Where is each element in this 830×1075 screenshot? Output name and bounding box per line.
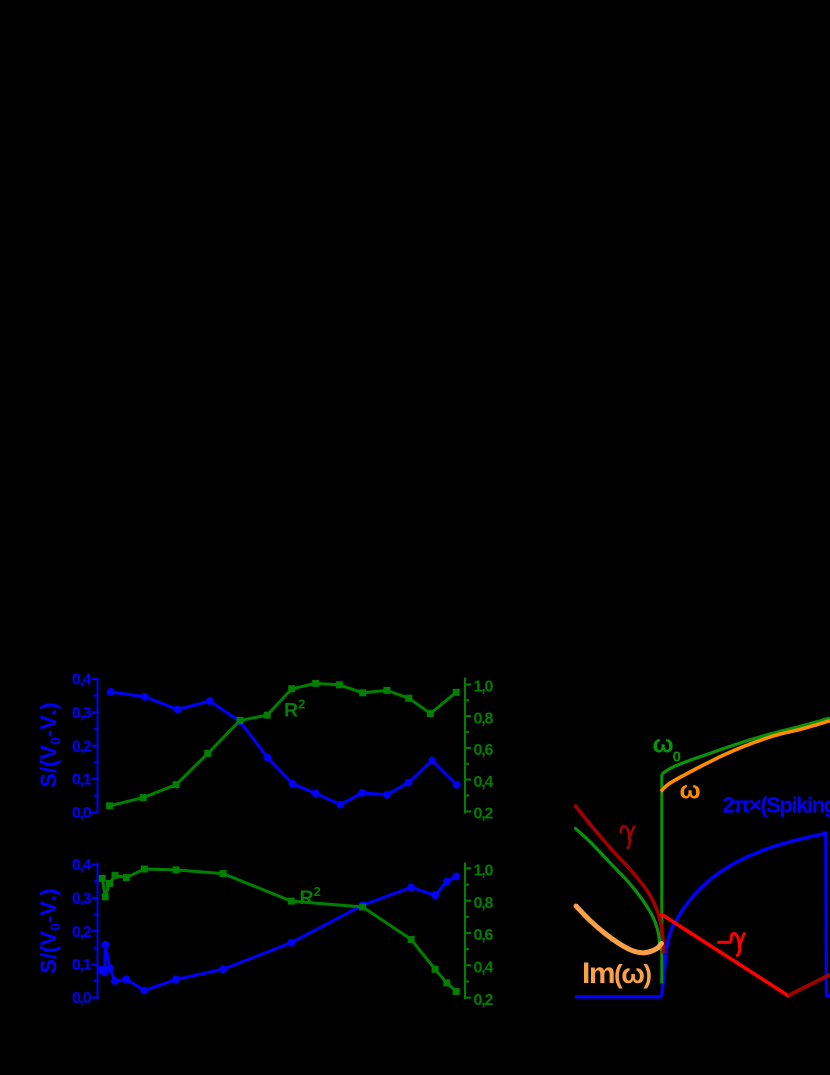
right plot orange Im(omega) arc [576,906,662,953]
svg-text:0,4: 0,4 [72,857,92,874]
svg-text:0,8: 0,8 [474,710,494,727]
label minus gamma red [717,933,744,955]
right plot red minus-gamma line [662,915,788,996]
svg-text:0,2: 0,2 [474,992,494,1009]
svg-text:0,2: 0,2 [72,924,92,941]
svg-text:1,0: 1,0 [474,863,494,880]
right plot orange omega curve [661,721,830,792]
label omega0 green [653,731,681,766]
label 2pi x (Spiking rate) blue [723,792,830,817]
label omega orange [680,776,701,804]
svg-text:0,6: 0,6 [474,742,494,759]
right plot dark red gamma line (right branch) [788,975,830,996]
right plot green omega0 curve [662,718,830,774]
svg-text:2π×(Spiking rate): 2π×(Spiking rate) [723,792,830,817]
bottom chart R^2 label [300,884,321,909]
svg-text:0,0: 0,0 [72,805,92,822]
svg-text:0,4: 0,4 [474,960,494,977]
svg-text:0,2: 0,2 [474,806,494,823]
svg-text:S/(V0-V*): S/(V0-V*) [36,888,64,973]
bottom chart green right axis tick labels [474,863,494,1009]
top chart blue data series S/(V0-V*) [107,688,461,808]
svg-text:1,0: 1,0 [474,679,494,696]
svg-text:0,0: 0,0 [72,990,92,1007]
svg-text:R2: R2 [300,884,321,909]
top chart green right y-axis [465,678,471,814]
label Im(omega) orange [582,957,651,990]
bottom chart blue data series S/(V0-V*) [97,873,460,995]
right plot blue spiking rate curve [575,832,830,997]
svg-text:ω0: ω0 [653,731,681,766]
top chart green right axis tick labels [474,679,494,823]
svg-text:0,6: 0,6 [474,927,494,944]
svg-text:ω: ω [680,776,701,804]
svg-text:S/(V0-V*): S/(V0-V*) [36,702,64,787]
top chart blue y-axis tick labels [72,671,92,822]
top chart R^2 label [284,697,305,722]
svg-text:0,3: 0,3 [72,891,92,908]
svg-text:Im(ω): Im(ω) [582,957,651,990]
right plot dark red gamma curve (left branch) [576,806,664,952]
svg-text:0,1: 0,1 [72,957,92,974]
bottom chart green data series R^2 [99,866,460,996]
right plot green curve (left branch) [576,829,661,950]
bottom chart y-axis title S/(V0-V*) [36,888,64,973]
svg-text:0,8: 0,8 [474,895,494,912]
right plot green vertical jump line at bifurcation [660,774,663,983]
bottom chart blue y-axis [92,863,98,1000]
svg-text:0,4: 0,4 [474,774,494,791]
svg-text:0,3: 0,3 [72,705,92,722]
top chart green data series R^2 [106,680,460,809]
svg-text:0,4: 0,4 [72,671,92,688]
svg-text:0,1: 0,1 [72,772,92,789]
svg-text:0,2: 0,2 [72,738,92,755]
label gamma dark red [621,826,634,848]
svg-text:R2: R2 [284,697,305,722]
bottom chart green right y-axis [465,863,471,1000]
bottom chart blue y-axis tick labels [72,857,92,1007]
top chart blue y-axis [92,678,98,814]
top chart y-axis title S/(V0-V*) [36,702,64,787]
